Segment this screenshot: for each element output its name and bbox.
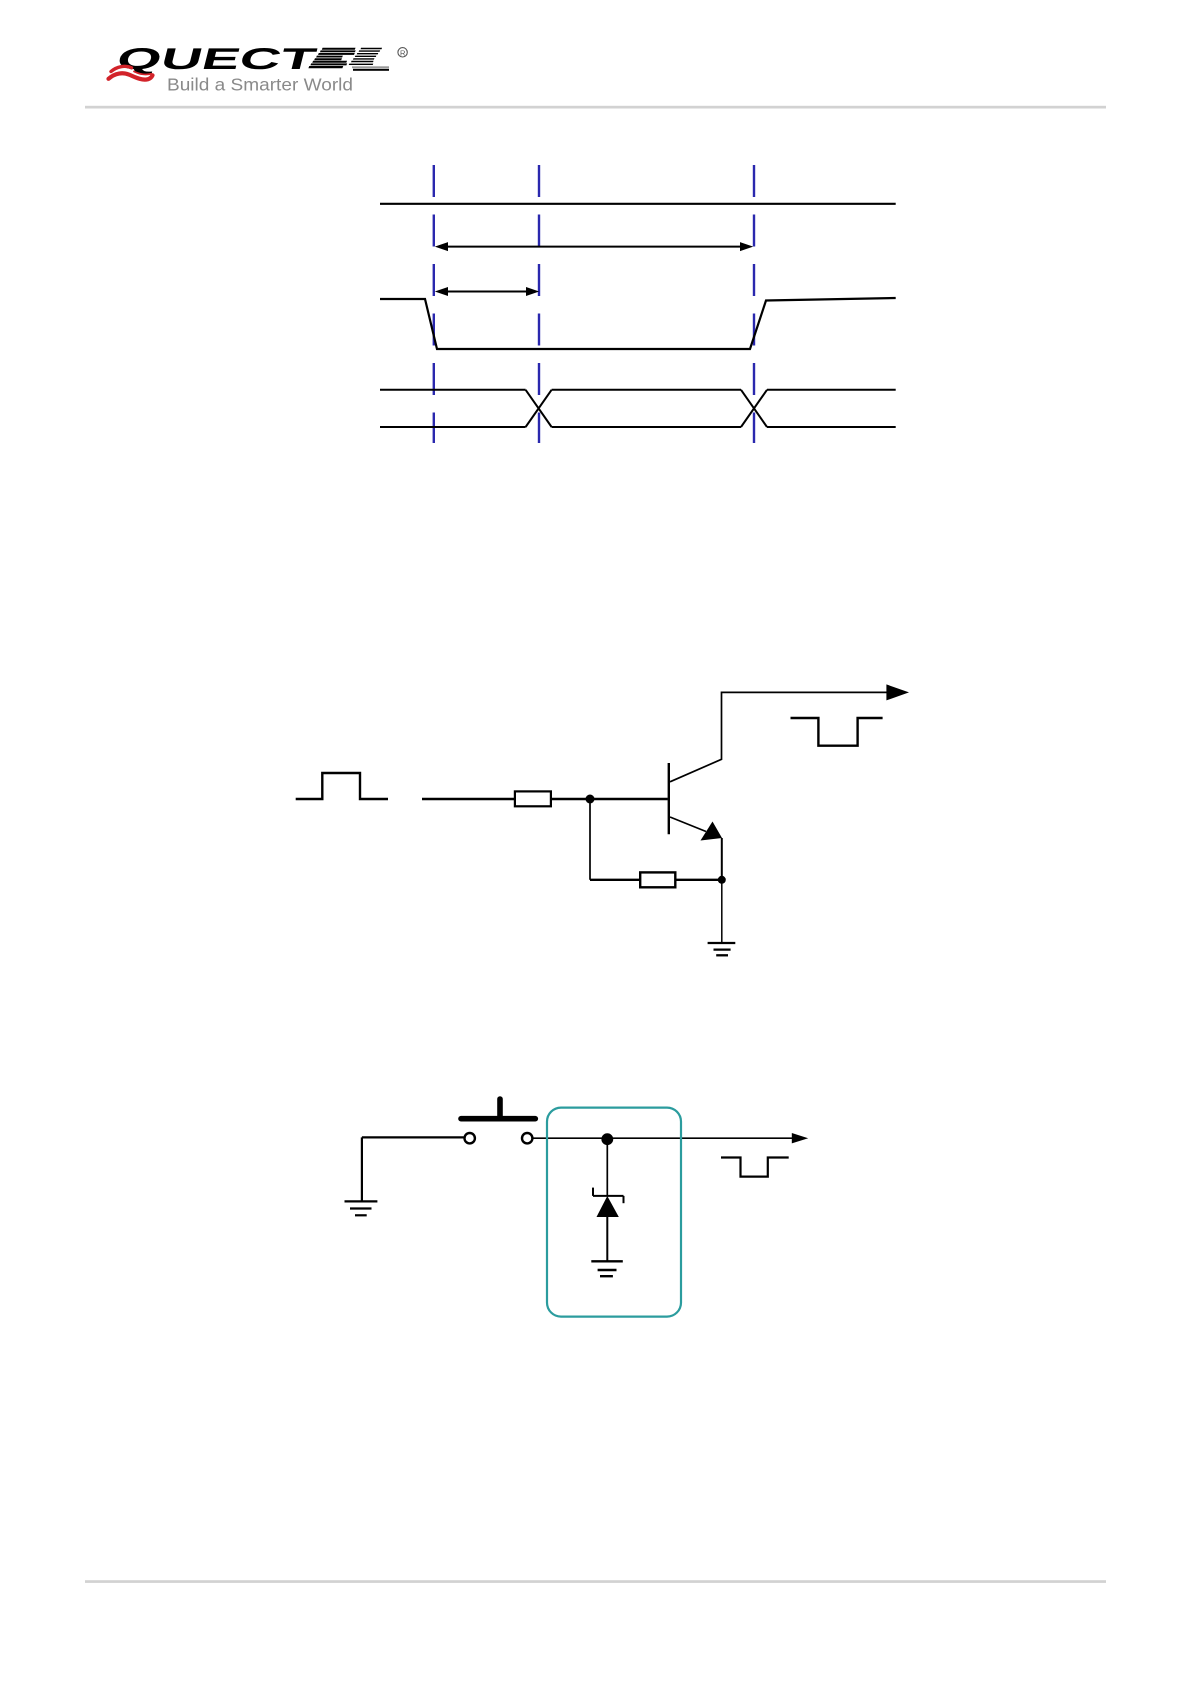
svg-text:QUECT: QUECT bbox=[113, 42, 320, 75]
svg-text:R: R bbox=[400, 48, 406, 57]
svg-text:Build a Smarter World: Build a Smarter World bbox=[167, 75, 353, 95]
